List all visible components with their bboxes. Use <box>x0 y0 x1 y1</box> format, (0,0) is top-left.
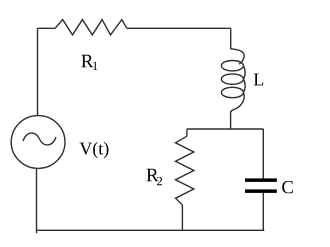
wire: R1 right lead to top-right corner <box>127 27 231 29</box>
inductor L coil <box>221 49 245 113</box>
wire: capacitor branch upper vertical <box>262 129 264 179</box>
wire: bottom horizontal <box>36 229 264 231</box>
voltage source V1 circle <box>11 116 65 169</box>
wire: R2 top lead <box>186 129 188 136</box>
wire: capacitor branch lower vertical <box>262 193 264 230</box>
wire: top-left vertical from top corner down to source top <box>37 28 39 115</box>
label L <box>254 74 263 86</box>
resistor R1 zigzag <box>55 20 127 35</box>
label V(t) <box>80 142 109 158</box>
label R1 <box>81 55 97 70</box>
wire: top-left horizontal lead into resistor R1 <box>38 27 56 29</box>
capacitor C bottom plate <box>245 189 277 193</box>
resistor R2 zigzag <box>176 136 194 205</box>
capacitor C top plate <box>245 178 277 182</box>
wire: top-right vertical down to inductor entry <box>230 28 232 49</box>
wire: R2 bottom lead down to bottom wire <box>181 205 183 230</box>
wire: inductor bottom lead down to mid junction <box>230 113 232 129</box>
voltage source sine wave <box>23 133 56 145</box>
wire: mid horizontal from R2 corner to capacitor corner <box>187 128 264 130</box>
label C <box>282 181 293 193</box>
wire: source bottom vertical with slight overshoot <box>36 168 38 233</box>
label R2 <box>147 169 163 185</box>
